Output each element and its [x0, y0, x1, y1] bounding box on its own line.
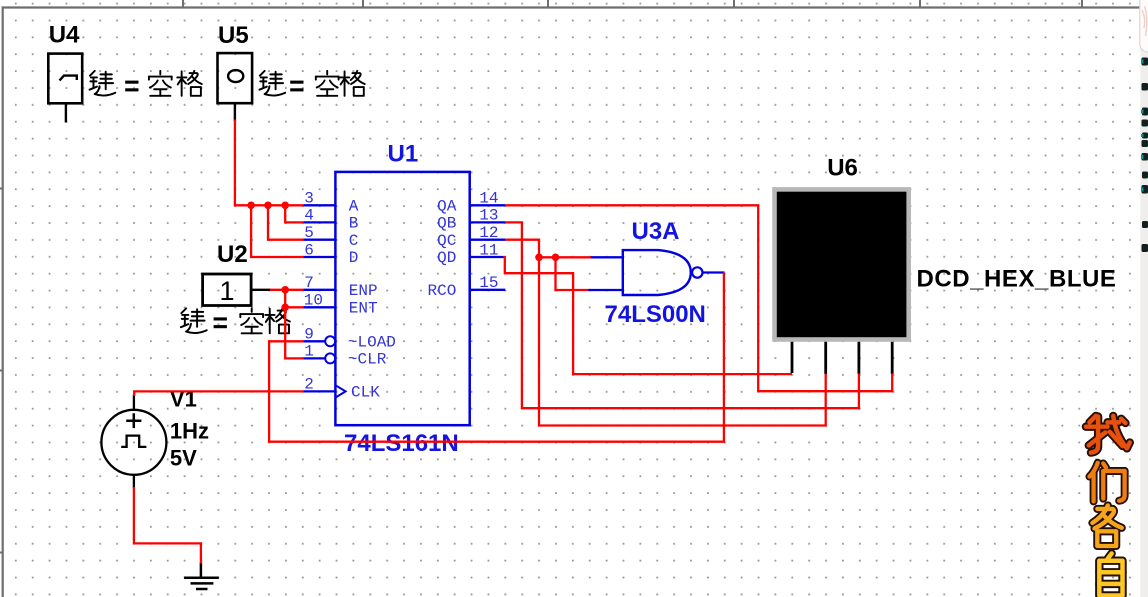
U1 pin 10 ENT — [304, 292, 378, 318]
svg-text:5: 5 — [304, 224, 314, 242]
U1 pin 11 QD — [437, 241, 504, 267]
svg-text:QD: QD — [437, 249, 456, 267]
U1 pin 1 ~CLR — [304, 343, 387, 369]
wire branch to U1 pin D — [251, 205, 304, 257]
svg-text:9: 9 — [304, 326, 314, 344]
digital constant U2 — [203, 274, 271, 306]
svg-text:C: C — [349, 232, 359, 250]
svg-text:10: 10 — [304, 292, 323, 310]
svg-text:14: 14 — [479, 190, 498, 208]
wire QC tap to NAND input A — [539, 256, 591, 258]
NAND gate U3A body — [588, 250, 725, 295]
svg-text:6: 6 — [304, 241, 314, 259]
svg-text:A: A — [349, 198, 359, 216]
junction dots ENP/ENT — [281, 286, 289, 311]
wire QB to U6 pin 3 — [505, 222, 859, 408]
svg-text:74LS161N: 74LS161N — [344, 430, 459, 457]
U1 pin 5 C — [304, 224, 359, 250]
U1 pin 3 A — [304, 190, 359, 216]
svg-text:~LOAD: ~LOAD — [348, 334, 396, 352]
U1 pin 7 ENP — [304, 274, 378, 300]
wire U5 to U1 pin A — [235, 120, 304, 206]
svg-text:U6: U6 — [827, 154, 858, 181]
U1 pin 9 ~LOAD — [304, 326, 396, 352]
right edge window sliver background — [1140, 0, 1148, 597]
svg-text:U4: U4 — [49, 22, 80, 49]
svg-text:ENP: ENP — [349, 282, 378, 300]
svg-text:QB: QB — [437, 215, 456, 233]
watermark character 各 — [1092, 505, 1121, 546]
junction dots NAND inputs — [535, 253, 559, 261]
svg-text:1: 1 — [220, 276, 235, 306]
svg-text:~CLR: ~CLR — [348, 351, 387, 369]
wire branch to NAND input B — [556, 257, 589, 290]
wire branch to U1 pin C — [268, 205, 304, 239]
U1 pin 6 D — [304, 241, 359, 267]
display U6 — [772, 187, 911, 374]
svg-text:13: 13 — [479, 207, 498, 225]
U1 pin 12 QC — [437, 224, 505, 250]
svg-text:12: 12 — [479, 224, 498, 242]
svg-text:QC: QC — [437, 232, 456, 250]
svg-text:15: 15 — [479, 274, 498, 292]
svg-text:ENT: ENT — [349, 300, 378, 318]
wire V1 to CLK — [134, 391, 304, 396]
svg-text:U3A: U3A — [632, 218, 680, 245]
svg-text:B: B — [349, 215, 359, 233]
value label U4: 键 = 空格 — [90, 71, 202, 96]
svg-text:U1: U1 — [388, 141, 419, 168]
clock source V1 — [101, 395, 166, 489]
counter U1 74LS161N body — [335, 172, 469, 425]
svg-text:5V: 5V — [170, 445, 197, 470]
U1 pin 15 RCO — [427, 274, 505, 300]
svg-text:3: 3 — [304, 190, 314, 208]
svg-text:DCD_HEX_BLUE: DCD_HEX_BLUE — [917, 266, 1117, 293]
U1 pin 13 QB — [437, 207, 505, 233]
svg-text:11: 11 — [479, 241, 498, 259]
value label U2: 键 = 空格 — [181, 308, 290, 333]
svg-text:U5: U5 — [218, 22, 249, 49]
wire QC to U6 pin 2 — [505, 240, 826, 426]
svg-text:U2: U2 — [217, 241, 248, 268]
wire QD to U6 pin 1 — [504, 257, 792, 374]
watermark character 我 — [1086, 416, 1130, 453]
svg-text:1Hz: 1Hz — [170, 418, 209, 443]
U1 pin 2 CLK — [304, 376, 381, 402]
svg-text:74LS00N: 74LS00N — [605, 301, 706, 328]
svg-text:7: 7 — [304, 274, 314, 292]
switch U5 — [218, 53, 253, 121]
svg-text:D: D — [349, 249, 359, 267]
svg-text:RCO: RCO — [427, 282, 456, 300]
value label U5: 键 = 空格 — [259, 71, 364, 96]
U1 pin 14 QA — [437, 190, 505, 216]
wire U2 to ENP — [270, 289, 304, 291]
junction dots on A wire — [247, 202, 289, 210]
switch U4 — [48, 54, 82, 123]
wire branch to U1 pin B — [285, 205, 304, 222]
wire V1 to ground — [134, 487, 201, 564]
svg-text:CLK: CLK — [351, 384, 380, 402]
U1 pin 4 B — [304, 207, 359, 233]
wire NAND output feedback to ~LOAD — [269, 273, 724, 442]
svg-text:QA: QA — [437, 198, 457, 216]
wire branch to ENT — [285, 306, 304, 308]
svg-text:V1: V1 — [170, 386, 197, 411]
ground — [184, 563, 219, 590]
right edge text fragments — [1142, 58, 1148, 253]
svg-text:1: 1 — [304, 343, 314, 361]
wire QA to U6 pin 4 — [505, 205, 892, 391]
svg-text:4: 4 — [304, 207, 314, 225]
watermark character 们 — [1089, 463, 1124, 502]
svg-text:2: 2 — [304, 376, 314, 394]
watermark character 自 — [1099, 553, 1122, 595]
wire ENP junction down to ~CLR — [285, 290, 304, 359]
